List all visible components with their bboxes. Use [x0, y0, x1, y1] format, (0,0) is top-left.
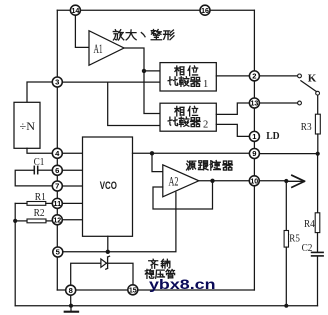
- wire pin9 to R3 node: [259, 153, 317, 155]
- svg-text:12: 12: [53, 216, 61, 225]
- junction output node: [284, 179, 288, 183]
- wire C2 to bottom bus: [317, 257, 319, 306]
- wire bottom ground bus: [15, 305, 317, 307]
- wire IC outline right edge: [253, 10, 255, 290]
- svg-text:R5: R5: [289, 233, 300, 244]
- switch K: [298, 72, 320, 105]
- ground: [65, 306, 78, 312]
- svg-text:÷N: ÷N: [20, 121, 36, 133]
- wire IC outline top edge: [57, 9, 254, 11]
- wire VCO output to pin9: [133, 152, 250, 154]
- svg-text:9: 9: [252, 149, 256, 158]
- wire pin2 to switch contact: [259, 75, 297, 77]
- wire pin7 to VCO: [62, 185, 82, 187]
- wire R2 left to rail: [15, 220, 27, 222]
- pin 6: [52, 165, 62, 175]
- wire node to A2 input: [152, 153, 163, 171]
- pin 15: [128, 285, 138, 295]
- svg-text:14: 14: [72, 6, 80, 15]
- label 齐纳: [149, 259, 170, 268]
- wire R1 left to ground rail: [15, 202, 27, 204]
- svg-text:A1: A1: [94, 42, 103, 56]
- svg-text:ybx8.cn: ybx8.cn: [149, 277, 216, 293]
- pin 11: [52, 198, 62, 208]
- pin 14: [70, 5, 80, 15]
- resistor R5: [284, 181, 300, 247]
- resistor R3: [301, 114, 321, 134]
- svg-text:10: 10: [250, 177, 258, 186]
- junction ground node: [69, 304, 73, 308]
- wire A1 output branch to comparator2: [144, 71, 160, 114]
- wire comparator1 output to pin2: [216, 75, 249, 77]
- wire divider output to pin4: [27, 148, 52, 153]
- pin 3: [52, 77, 62, 87]
- pin 13: [249, 98, 259, 108]
- pin 7: [52, 181, 62, 191]
- wire IC outline left edge: [56, 10, 58, 290]
- wire left rail down to bottom: [14, 203, 16, 305]
- pin 4: [52, 148, 62, 158]
- wire pin6 to VCO: [62, 169, 82, 171]
- svg-text:13: 13: [251, 99, 259, 108]
- wire R5 to bottom bus: [285, 247, 287, 306]
- svg-text:1: 1: [203, 79, 208, 90]
- resistor R2: [27, 208, 46, 223]
- svg-text:8: 8: [69, 286, 73, 295]
- svg-text:3: 3: [55, 78, 59, 87]
- wire pin3 to divider input: [27, 82, 52, 102]
- pin 1: [249, 131, 259, 141]
- label 相位 (comparator1): [175, 66, 198, 76]
- pin 8: [66, 285, 76, 295]
- wire pin11 to VCO: [62, 202, 82, 204]
- svg-text:15: 15: [129, 286, 137, 295]
- wire pin12 to VCO: [62, 219, 82, 221]
- svg-text:R3: R3: [301, 122, 312, 133]
- capacitor C2: [302, 243, 324, 256]
- junction R5 bottom: [284, 304, 288, 308]
- svg-text:A2: A2: [169, 174, 179, 188]
- wire R2 to pin12: [46, 220, 52, 222]
- svg-text:C1: C1: [34, 157, 45, 168]
- wire pin10 output: [259, 180, 286, 182]
- output arrow: [286, 175, 304, 187]
- op-amp A2 source follower: [163, 165, 199, 197]
- zener diode D1: [101, 256, 110, 269]
- wire node down to R4: [317, 154, 319, 213]
- wire VCO bottom to pin5 line: [107, 236, 109, 252]
- junction R2 rail: [13, 219, 17, 223]
- wire R4 to C2: [317, 233, 319, 252]
- svg-text:11: 11: [53, 199, 61, 208]
- pin 16: [200, 5, 210, 15]
- capacitor C1: [34, 157, 45, 174]
- phase comparator 2 block: [160, 103, 216, 131]
- label 稳压管: [145, 269, 174, 278]
- pin 10: [249, 176, 259, 186]
- pin 12: [52, 215, 62, 225]
- svg-text:K: K: [308, 72, 317, 84]
- wire pin13 to switch contact: [259, 102, 297, 104]
- svg-text:6: 6: [55, 166, 59, 175]
- svg-text:2: 2: [203, 119, 208, 130]
- op-amp A1: [89, 31, 124, 66]
- wire pin4 to VCO: [62, 152, 82, 154]
- wire A2 output to pin10: [199, 180, 250, 182]
- junction A2 output node: [210, 179, 214, 183]
- phase comparator 1 block: [160, 63, 216, 91]
- VCO block: [83, 137, 133, 236]
- wire R1 to pin11: [46, 202, 53, 204]
- wire pin3 to comparator1 input: [62, 81, 160, 83]
- wire branch to comparator2 input: [108, 82, 160, 125]
- wire zener loop: [71, 263, 133, 285]
- label 放大、整形: [113, 29, 174, 40]
- svg-text:R4: R4: [304, 219, 315, 230]
- divider block U2 ÷N: [14, 102, 40, 148]
- svg-text:VCO: VCO: [100, 180, 117, 192]
- resistor R4: [304, 213, 320, 233]
- svg-text:16: 16: [201, 6, 209, 15]
- label 比较器1: [168, 77, 208, 90]
- resistor R1: [27, 192, 46, 205]
- junction R3 bottom node: [316, 152, 320, 156]
- wire comparator2 output to pin1: [216, 124, 249, 136]
- wire R3 to pin9 node: [317, 134, 319, 154]
- wire A1 output to comparators: [124, 48, 160, 71]
- label 源跟随器: [187, 161, 233, 170]
- junction VCO bottom node: [106, 250, 110, 254]
- junction A1 output node: [142, 69, 146, 73]
- wire pin8 to ground bus: [70, 295, 72, 306]
- pin 5: [53, 247, 63, 257]
- label 比较器2: [168, 117, 208, 130]
- wire IC outline bottom edge: [57, 289, 254, 291]
- pin 2: [249, 71, 259, 81]
- svg-text:7: 7: [55, 182, 59, 191]
- wire pin14 to A1 input: [75, 15, 88, 47]
- svg-text:R2: R2: [34, 208, 45, 219]
- wire comparator2 output to pin13: [216, 103, 249, 114]
- wire switch common down: [317, 95, 319, 114]
- wire C1 right plate to pin6: [38, 169, 52, 171]
- svg-text:2: 2: [252, 72, 256, 81]
- label 相位 (comparator2): [175, 106, 198, 116]
- wire A2 feedback loop: [153, 181, 213, 209]
- svg-text:C2: C2: [302, 243, 313, 254]
- wire A2 bias down to pin5 line: [63, 192, 176, 252]
- svg-text:LD: LD: [266, 131, 279, 142]
- wire C1 left plate loop to pin7: [15, 170, 52, 186]
- pin 9: [249, 149, 259, 159]
- junction VCO output node: [150, 151, 154, 155]
